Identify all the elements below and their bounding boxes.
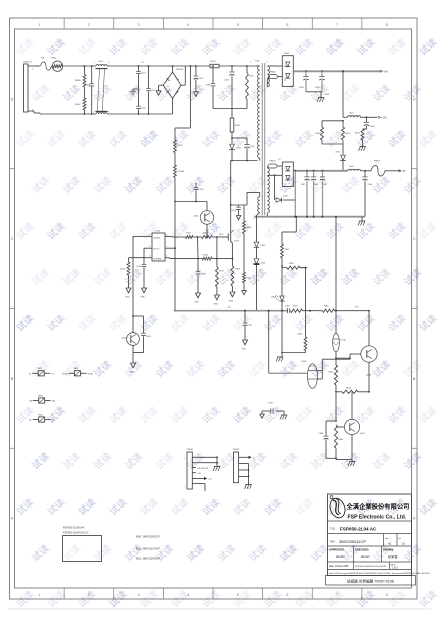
svg-text:C103: C103 (205, 85, 211, 87)
-5V rail (293, 170, 348, 172)
svg-text:R100: R100 (178, 145, 184, 147)
svg-text:GND: GND (130, 372, 135, 374)
ferrite bead FB51 (29, 368, 55, 376)
ground (236, 216, 241, 220)
secondary ground rail (254, 216, 365, 218)
ground (141, 288, 147, 299)
resistor R604 (336, 387, 369, 393)
svg-text:C: C (413, 237, 416, 241)
resistor R103 (230, 118, 241, 138)
svg-text:3BSG50011CP: 3BSG50011CP (339, 539, 366, 544)
resistor R106 (202, 255, 232, 261)
svg-text:GND: GND (141, 297, 146, 299)
wire primary return (231, 160, 258, 162)
svg-text:R609: R609 (316, 133, 322, 135)
revision box (63, 527, 102, 562)
svg-text:Q101: Q101 (219, 234, 223, 236)
capacitor C502 (136, 90, 146, 114)
svg-text:D601: D601 (284, 53, 290, 55)
svg-text:6: 6 (286, 593, 288, 597)
svg-text:C501: C501 (141, 73, 147, 75)
T100 secondary 2 (267, 168, 269, 217)
svg-text:C: C (11, 237, 14, 241)
svg-text:CN50 L0: CN50 L0 (23, 62, 32, 64)
svg-text:4: 4 (251, 62, 252, 64)
ground (194, 92, 199, 96)
svg-text:P/N:: P/N: (330, 540, 335, 544)
rectifier D601 (282, 53, 293, 87)
svg-text:SCSD: SCSD (62, 373, 68, 375)
svg-text:FSP050-2L04(V)=0: FSP050-2L04(V)=0 (63, 527, 85, 530)
svg-text:7: 7 (166, 246, 167, 248)
BOM note M50 (136, 535, 160, 539)
capacitor C108 (136, 264, 146, 288)
svg-text:DRAWN:: DRAWN: (383, 548, 394, 552)
svg-text:2: 2 (94, 112, 95, 114)
resistor R100 (174, 128, 184, 153)
resistor R100B (174, 153, 185, 178)
svg-text:C502: C502 (141, 108, 147, 110)
capacitor C201 (243, 311, 253, 340)
resistor R101 (246, 66, 255, 109)
ground (130, 353, 136, 374)
svg-text:D: D (11, 97, 14, 101)
svg-text:7: 7 (336, 23, 338, 27)
wire (197, 237, 199, 260)
svg-text:6: 6 (166, 256, 167, 258)
svg-text:CN602: CN602 (233, 449, 241, 451)
ground (260, 411, 265, 418)
diode D101 (229, 138, 242, 161)
resistor R405 (323, 306, 335, 313)
capacitor C401 (285, 306, 291, 314)
svg-text:8: 8 (386, 23, 388, 27)
svg-text:SCSD: SCSD (87, 373, 93, 375)
wire N bottom (34, 113, 96, 115)
resistor R107 (216, 259, 225, 295)
svg-text:3: 3 (108, 112, 109, 114)
svg-text:2: 2 (149, 234, 150, 236)
resistor R403 (298, 311, 307, 353)
chassis ground (130, 88, 140, 95)
svg-text:BEAR: BEAR (361, 555, 370, 559)
svg-text:FB602: FB602 (270, 72, 277, 74)
fuse F50 (41, 58, 52, 71)
svg-text:5: 5 (237, 23, 239, 27)
svg-text:8: 8 (386, 593, 388, 597)
ferrite bead FB603 (267, 161, 282, 169)
ferrite bead FB54 (29, 414, 55, 422)
svg-text:全漢企業股份有限公司: 全漢企業股份有限公司 (346, 502, 410, 511)
capacitor C606 (311, 171, 319, 217)
zener Z200 (254, 248, 266, 312)
wire opto out (317, 358, 350, 379)
svg-text:Q100: Q100 (193, 216, 199, 218)
svg-text:紀家蓉: 紀家蓉 (388, 554, 398, 559)
svg-text:+5V: +5V (384, 70, 389, 73)
resistor R204 (243, 233, 253, 290)
svg-text:4: 4 (108, 62, 109, 64)
title block (328, 494, 412, 576)
svg-text:PCB File:FSP050-2L04-01.PCB: PCB File:FSP050-2L04-01.PCB (355, 566, 387, 568)
transformer T100 core (251, 61, 268, 216)
wire fb (133, 236, 148, 316)
svg-text:GND: GND (195, 302, 200, 304)
ferrite bead FB52 (62, 368, 94, 376)
wire fb tap (282, 216, 297, 244)
svg-text:A2: A2 (388, 542, 392, 546)
capacitor C608 (319, 421, 337, 458)
svg-text:BD100: BD100 (177, 69, 184, 71)
wire 12v (343, 71, 348, 117)
ferrite bead FB602 (267, 72, 282, 81)
svg-text:TL431: TL431 (340, 340, 347, 342)
svg-text:FB VCC: FB VCC (153, 248, 160, 250)
capacitor C605 (301, 171, 310, 217)
resistor R108 (231, 259, 241, 292)
wire (52, 65, 54, 67)
capacitor C106 (224, 66, 235, 118)
capacitor C301 (133, 316, 152, 353)
resistor R50B (75, 66, 86, 87)
svg-text:F2: F2 (279, 159, 281, 161)
T100 primary winding (255, 66, 260, 161)
resistor R404 (291, 306, 303, 313)
svg-text:1: 1 (254, 219, 255, 221)
svg-text:Date: 16-Dec-2008: Date: 16-Dec-2008 (329, 565, 349, 568)
capacitor C607 (320, 171, 328, 217)
svg-text:R107: R107 (219, 271, 225, 273)
optocoupler diode U40A (271, 295, 285, 311)
wire rail L1 (107, 62, 210, 67)
svg-text:+12V: +12V (381, 116, 387, 119)
svg-text:R611: R611 (355, 133, 361, 135)
resistor R50Z (75, 98, 86, 114)
svg-text:U40B: U40B (302, 361, 308, 363)
wire ri (129, 258, 149, 262)
wire snubber (213, 108, 247, 110)
resistor R104 (193, 233, 228, 239)
svg-text:1: 1 (184, 457, 185, 459)
node (231, 137, 233, 139)
connector CN50 (23, 62, 34, 114)
svg-text:Z601: Z601 (336, 152, 342, 154)
svg-text:3: 3 (138, 593, 140, 597)
svg-text:R103: R103 (235, 125, 241, 127)
svg-text:R100B: R100B (178, 171, 185, 173)
capacitor C103 (205, 66, 215, 109)
svg-text:BEAR: BEAR (336, 555, 345, 559)
svg-text:FSP050-2L04 AC: FSP050-2L04 AC (340, 526, 377, 531)
svg-text:3: 3 (149, 246, 150, 248)
bridge rectifier BD100 (163, 66, 184, 99)
svg-text:CN601: CN601 (187, 449, 195, 451)
svg-text:7: 7 (184, 486, 185, 488)
svg-text:GND: GND (214, 304, 219, 306)
capacitor C50 (85, 66, 94, 114)
earth ground (280, 411, 287, 419)
wire sense (169, 257, 202, 260)
capacitor C109 (196, 259, 207, 293)
resistor R611 (355, 129, 367, 144)
svg-text:FSP050-2L04(V)=0.1C: FSP050-2L04(V)=0.1C (63, 532, 89, 535)
svg-text:R110: R110 (121, 269, 127, 271)
resistor R203 (243, 205, 253, 233)
svg-text:D: D (413, 97, 416, 101)
resistor R402 (282, 263, 307, 269)
resistor R610 (322, 120, 351, 140)
optocoupler U40B (302, 361, 318, 388)
svg-text:TH50: TH50 (51, 58, 57, 60)
wire (294, 171, 296, 217)
wire bridge bottom (172, 99, 174, 115)
svg-text:6: 6 (286, 23, 288, 27)
capacitor C101 (194, 66, 205, 92)
capacitor C203 (231, 205, 241, 216)
svg-text:U100: U100 (155, 231, 161, 233)
svg-text:R50Z: R50Z (75, 104, 81, 106)
earth ground (348, 460, 355, 466)
svg-text:5: 5 (149, 256, 150, 258)
wire (300, 268, 306, 311)
ground (125, 288, 131, 299)
capacitor C501 (136, 66, 146, 88)
svg-text:GND: GND (229, 301, 234, 303)
svg-text:1.0: 1.0 (402, 542, 406, 546)
T100 aux winding (247, 192, 260, 220)
svg-text:C109: C109 (201, 274, 207, 276)
resistor R606 (334, 425, 344, 459)
svg-text:C190: C190 (268, 403, 274, 405)
svg-text:Q602: Q602 (366, 375, 372, 377)
svg-text:1: 1 (38, 593, 40, 597)
svg-text:1: 1 (94, 62, 95, 64)
capacitor C100 (232, 138, 255, 161)
ferrite bead FB601 (371, 161, 385, 177)
svg-text:C310: C310 (85, 84, 91, 86)
ground (195, 293, 201, 304)
svg-text:2: 2 (88, 593, 90, 597)
svg-text:Q603: Q603 (360, 433, 366, 435)
wire rail N1 (107, 113, 173, 115)
connector CN602 (233, 449, 256, 489)
capacitor C603 (364, 117, 376, 129)
svg-text:M52: 3BAC50040CP: M52: 3BAC50040CP (136, 557, 160, 561)
capacitor C604 (362, 171, 373, 217)
svg-text:R102: R102 (211, 61, 217, 63)
diode D202 (274, 174, 296, 202)
svg-text:RI SENSE: RI SENSE (153, 258, 162, 260)
earth ground (276, 353, 283, 362)
svg-text:8: 8 (166, 234, 167, 236)
capacitor C601 (299, 71, 309, 92)
wire (335, 217, 337, 334)
svg-text:M51: 3BAC50270CP: M51: 3BAC50270CP (136, 547, 160, 551)
svg-text:GND: GND (125, 297, 130, 299)
ground (214, 295, 220, 306)
shunt regulator TL431 (333, 334, 347, 352)
svg-text:C603: C603 (370, 126, 376, 128)
svg-text:B: B (11, 377, 14, 381)
resistor R102 (210, 61, 255, 68)
wire (281, 266, 283, 296)
svg-text:C301: C301 (146, 336, 152, 338)
page bottom rule (8, 608, 431, 610)
svg-text:A: A (413, 517, 416, 521)
svg-text:C106: C106 (224, 80, 230, 82)
capacitor C105 (194, 183, 205, 202)
earth ground (358, 217, 365, 226)
svg-text:FB53: FB53 (38, 395, 43, 397)
svg-text:R108: R108 (235, 269, 241, 271)
resistor R401 (281, 244, 291, 267)
svg-text:2: 2 (88, 23, 90, 27)
svg-text:APPROVED:: APPROVED: (329, 548, 345, 552)
wire vcc pin (169, 247, 176, 249)
svg-text:T100: T100 (255, 61, 261, 63)
svg-text:試讀篇 世界編輯 7000P-0106: 試讀篇 世界編輯 7000P-0106 (347, 579, 394, 584)
transistor Q100 (175, 202, 214, 238)
zener Z601 (336, 144, 346, 171)
svg-text:3: 3 (138, 23, 140, 27)
transistor Q602 (350, 310, 377, 393)
mosfet Q102 (228, 230, 240, 243)
svg-text:-5V: -5V (402, 170, 406, 173)
wire comp (144, 248, 148, 264)
svg-text:R106: R106 (203, 255, 209, 257)
svg-text:CAGATE: CAGATE (153, 236, 161, 239)
svg-text:FB52: FB52 (74, 368, 79, 370)
svg-text:C100: C100 (250, 146, 256, 148)
feedback rail S2 (175, 307, 369, 312)
rectifier D602 (267, 159, 293, 187)
svg-text:1: 1 (38, 23, 40, 27)
wire bridge plus (175, 66, 190, 128)
PWM IC U100 (148, 231, 169, 262)
svg-text:B: B (413, 377, 416, 381)
connector CN601 (184, 449, 220, 491)
wire L to node (63, 65, 97, 67)
svg-text:5: 5 (237, 593, 239, 597)
wire divider (322, 140, 343, 144)
resistor R609 (316, 121, 324, 140)
+5V rail (293, 70, 388, 73)
wire (361, 170, 372, 172)
svg-text:R101: R101 (249, 76, 255, 78)
wire (335, 352, 351, 366)
ground (229, 292, 235, 303)
wire opto in (269, 311, 308, 374)
svg-text:FSP Electronic Co., Ltd.: FSP Electronic Co., Ltd. (348, 515, 407, 521)
svg-text:4: 4 (187, 23, 189, 27)
svg-text:C105: C105 (199, 189, 205, 191)
svg-text:File:D:\OSC\Layout\2008\FSP050: File:D:\OSC\Layout\2008\FSP050-2L04\FSP0… (329, 572, 430, 575)
svg-text:L100: L100 (98, 61, 104, 63)
svg-text:TLE:: TLE: (330, 527, 336, 531)
BOM note M51 (136, 547, 160, 551)
svg-text:C101: C101 (198, 78, 204, 80)
wire (336, 458, 352, 459)
wire L input (34, 65, 40, 67)
capacitor C102 (146, 66, 156, 114)
node (132, 315, 134, 317)
ferrite bead FB53 (29, 395, 55, 403)
svg-text:U40A: U40A (271, 296, 277, 299)
svg-text:M50: 3BAC50001CP: M50: 3BAC50001CP (136, 535, 160, 539)
svg-text:GND: GND (325, 94, 330, 96)
svg-text:Sheet: Sheet (391, 563, 397, 566)
svg-text:D101: D101 (236, 148, 242, 150)
resistor R605 (329, 365, 338, 393)
ground (242, 291, 247, 295)
svg-text:C108: C108 (136, 266, 142, 268)
svg-text:FB603: FB603 (270, 161, 277, 163)
resistor R105 (186, 233, 194, 239)
svg-text:R105: R105 (186, 233, 192, 235)
inductor L601 (348, 113, 361, 118)
wire gate (169, 235, 186, 238)
wire drain tap (230, 204, 247, 206)
svg-text:ON-/ONOFF: ON-/ONOFF (197, 468, 209, 470)
inductor L602 (348, 166, 361, 171)
svg-text:Q301: Q301 (122, 338, 128, 340)
transistor Q301 (122, 316, 140, 353)
ground (242, 340, 248, 351)
ground (0, 0, 1, 1)
svg-text:1: 1 (267, 62, 268, 64)
svg-text:Q102: Q102 (234, 241, 240, 243)
svg-text:8: 8 (269, 211, 270, 213)
capacitor C190 (262, 403, 284, 414)
choke L100 (94, 61, 110, 114)
svg-text:1 of 2: 1 of 2 (392, 568, 398, 570)
wire drain (230, 161, 232, 233)
svg-text:A: A (11, 517, 14, 521)
ground (306, 92, 330, 102)
svg-text:7: 7 (336, 593, 338, 597)
svg-text:CHECKED:: CHECKED: (355, 548, 369, 552)
svg-text:R610: R610 (346, 133, 352, 135)
svg-text:R104: R104 (203, 233, 209, 235)
bridge minus to ground (156, 85, 163, 95)
svg-text:GND: GND (242, 349, 247, 351)
svg-text:rev: rev (399, 538, 402, 540)
svg-text:C602: C602 (315, 87, 321, 89)
svg-text:4: 4 (187, 593, 189, 597)
wire vcc line (174, 178, 176, 312)
svg-text:FB51: FB51 (38, 368, 43, 370)
capacitor C602 (315, 71, 325, 92)
wire (84, 87, 86, 98)
svg-text:C601: C601 (299, 87, 305, 89)
thermistor TH50 (51, 58, 63, 72)
resistor R110 (121, 262, 130, 288)
T100 secondary 1 (267, 66, 282, 87)
wire (216, 237, 218, 260)
svg-text:FB601: FB601 (374, 161, 381, 163)
svg-text:R50B: R50B (75, 80, 81, 82)
transistor Q603 (336, 392, 365, 460)
svg-text:R604: R604 (346, 387, 352, 389)
svg-text:FB54: FB54 (38, 414, 43, 416)
wire (281, 311, 305, 354)
wire source (231, 242, 234, 260)
diode D200 (254, 216, 266, 248)
ground (359, 129, 367, 151)
wire -5V out (385, 170, 406, 173)
BOM note M52 (136, 557, 160, 561)
wire (361, 116, 388, 119)
